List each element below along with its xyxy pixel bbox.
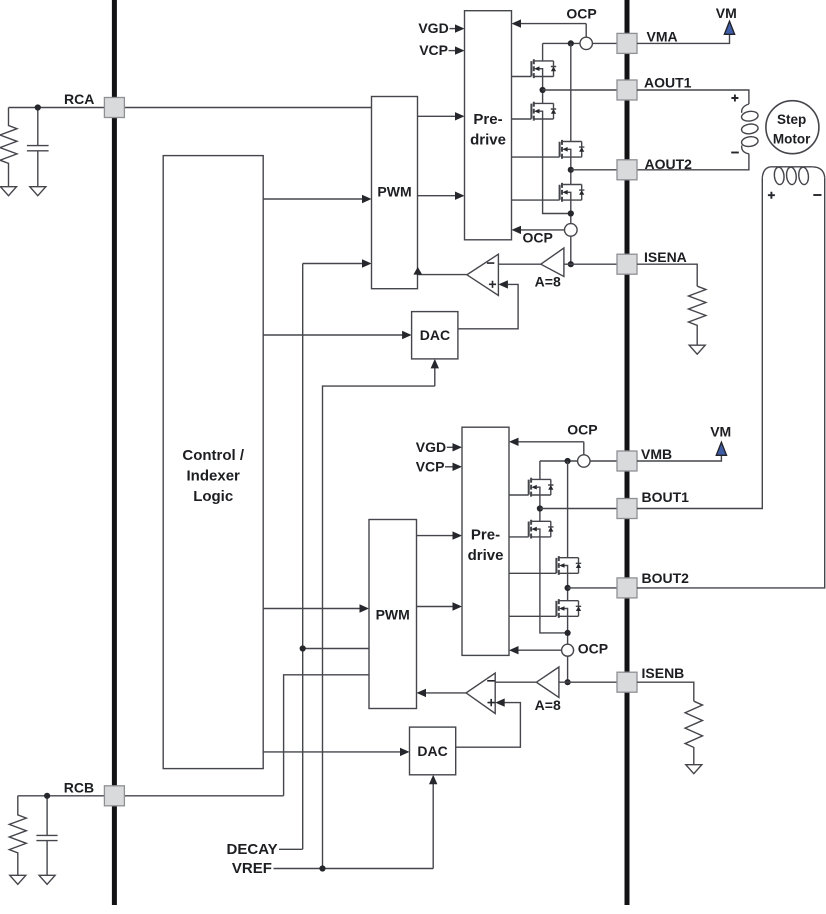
wire VMA to VM <box>637 34 730 43</box>
wire gate B HS right <box>509 572 556 574</box>
Control / Indexer Logic block U1 <box>163 156 263 769</box>
node VMB bridge junction <box>565 458 571 464</box>
ground <box>686 765 702 774</box>
bridge B right leg drain wire <box>567 461 569 558</box>
wire B left leg bottom <box>540 537 568 633</box>
wire DECAY branch to PWM B <box>303 648 369 650</box>
svg-text:DECAY: DECAY <box>227 841 278 858</box>
wire gate B LS right <box>509 615 556 617</box>
wire gate B HS left <box>509 494 529 496</box>
wire OCP A bottom to Pre-drive <box>521 229 565 231</box>
wire VMA rail <box>543 42 617 44</box>
label + winding A <box>731 95 738 102</box>
svg-text:A=8: A=8 <box>535 273 561 289</box>
wire VMB to VM <box>637 455 721 461</box>
svg-text:AOUT2: AOUT2 <box>645 156 693 172</box>
wire AOUT2 <box>571 169 617 171</box>
wire RCA to PWM A <box>9 107 372 109</box>
PWM A block <box>372 97 418 289</box>
wire OCP sense B to Pre-drive <box>518 442 584 455</box>
node VREF junction <box>319 865 325 871</box>
chip right boundary <box>625 0 630 905</box>
pin pad RCB <box>104 786 124 806</box>
resistor ISENB sense <box>685 701 702 764</box>
inductor winding A <box>741 104 759 154</box>
pin pad VMB <box>617 451 637 471</box>
wire A right leg mid <box>570 157 572 184</box>
wire gate A LS left <box>512 118 532 120</box>
wire A right leg to OCP <box>570 200 572 264</box>
svg-text:VM: VM <box>716 5 737 21</box>
svg-text:DAC: DAC <box>420 327 450 343</box>
wire AOUT1 <box>543 89 617 91</box>
pin pad ISENA <box>617 254 637 274</box>
svg-text:VGD: VGD <box>416 439 446 455</box>
svg-text:OCP: OCP <box>567 421 597 437</box>
node VMA bridge junction <box>568 40 574 46</box>
wire PWM B to Pre-drive out1 <box>417 535 454 537</box>
svg-text:Step: Step <box>777 112 806 127</box>
pin pad BOUT2 <box>617 578 637 598</box>
svg-text:VMA: VMA <box>647 28 678 44</box>
node DECAY branch junction <box>300 645 306 651</box>
current sense circle B bottom <box>562 644 574 656</box>
svg-text:Indexer: Indexer <box>187 467 241 484</box>
wire ISENB <box>559 681 617 683</box>
svg-text:BOUT2: BOUT2 <box>642 570 690 586</box>
wire AOUT1 to motor <box>637 90 749 104</box>
wire VREF riser to DAC A <box>323 368 435 869</box>
ground <box>689 345 705 354</box>
svg-text:ISENA: ISENA <box>644 249 687 265</box>
node RCA junction <box>35 104 41 110</box>
svg-text:Motor: Motor <box>773 132 811 147</box>
ground <box>30 187 46 196</box>
svg-text:DAC: DAC <box>417 743 447 759</box>
amplifier A=8 channel A <box>541 248 564 277</box>
chip left boundary <box>112 0 117 905</box>
svg-text:OCP: OCP <box>566 6 596 22</box>
pin pad VMA <box>617 33 637 53</box>
svg-text:VM: VM <box>710 424 731 440</box>
svg-text:PWM: PWM <box>376 607 410 623</box>
Pre-drive B block <box>462 427 509 655</box>
wire VMB rail <box>540 460 617 462</box>
transistor B high-side right <box>556 556 581 575</box>
supply VM B <box>716 442 726 455</box>
pin pad RCA <box>104 98 124 118</box>
wire PWM A to Pre-drive out2 <box>418 195 457 197</box>
label + winding B <box>768 192 775 199</box>
node ISENA junction <box>568 261 574 267</box>
ground <box>39 875 55 884</box>
wire Control to PWM A <box>263 198 363 200</box>
inductor winding B <box>762 167 824 185</box>
svg-text:OCP: OCP <box>523 230 553 246</box>
bridge B left leg drain wire <box>539 461 541 479</box>
wire A=8 to comparator minus <box>498 263 540 265</box>
ground <box>1 187 17 196</box>
svg-text:RCA: RCA <box>64 91 94 107</box>
bridge A left leg drain wire <box>542 43 544 61</box>
node AOUT2 junction <box>568 167 574 173</box>
transistor A low-side right <box>560 183 585 202</box>
svg-text:A=8: A=8 <box>535 697 561 713</box>
PWM B block <box>369 520 417 709</box>
transistor B high-side left <box>529 478 554 497</box>
wire gate A HS right <box>512 156 560 158</box>
wire OCP B bottom to Pre-drive <box>518 649 562 651</box>
wire ISENB to sense resistor <box>637 682 694 701</box>
wire A left leg bottom <box>543 119 571 214</box>
label - winding A <box>731 152 739 154</box>
svg-text:drive: drive <box>470 131 506 148</box>
svg-text:VCP: VCP <box>419 42 448 58</box>
transistor A high-side left <box>531 59 556 78</box>
svg-text:VGD: VGD <box>418 20 448 36</box>
wire gate A LS right <box>512 199 560 201</box>
svg-text:PWM: PWM <box>377 183 411 199</box>
node ISENB junction <box>565 679 571 685</box>
wire ISENA to sense resistor <box>637 264 697 286</box>
transistor A high-side right <box>560 140 585 159</box>
wire gate A HS left <box>512 76 532 78</box>
svg-text:drive: drive <box>468 547 504 564</box>
ground <box>10 875 26 884</box>
node AOUT1 junction <box>540 87 546 93</box>
current sense circle B top <box>578 455 590 467</box>
wire Control to DAC A <box>263 334 403 336</box>
svg-text:OCP: OCP <box>578 640 608 656</box>
wire AOUT2 to motor <box>637 154 749 170</box>
wire DAC A to comparator plus <box>458 284 518 328</box>
wire B left leg mid <box>539 495 541 521</box>
wire comparator B output to PWM <box>426 692 467 694</box>
wire A=8 B to comparator minus <box>495 681 536 683</box>
svg-text:ISENB: ISENB <box>642 665 685 681</box>
node RCB junction <box>44 793 50 799</box>
resistor ISENA sense <box>689 286 706 345</box>
svg-text:Logic: Logic <box>193 488 233 505</box>
resistor (RCB external) <box>9 796 26 875</box>
DAC A block <box>412 312 458 359</box>
wire ISENA <box>564 263 617 265</box>
svg-text:VREF: VREF <box>232 860 272 877</box>
pin pad AOUT1 <box>617 80 637 100</box>
wire DECAY riser to PWM A <box>303 264 363 850</box>
current sense circle A bottom <box>565 224 578 237</box>
svg-text:BOUT1: BOUT1 <box>642 489 690 505</box>
current sense circle A top <box>580 37 592 49</box>
wire comparator A output to PWM <box>418 274 467 276</box>
pin pad ISENB <box>617 672 637 692</box>
wire RCB riser to PWM B <box>284 675 369 796</box>
node BOUT2 junction <box>565 585 571 591</box>
transistor B low-side right <box>556 599 581 618</box>
svg-text:RCB: RCB <box>64 779 94 795</box>
Step Motor circle <box>766 101 819 154</box>
wire BOUT2 to motor <box>637 177 825 588</box>
amplifier A=8 channel B <box>536 667 559 697</box>
DAC B block <box>410 727 456 775</box>
pin pad AOUT2 <box>617 160 637 180</box>
bridge A right leg drain wire <box>570 43 572 141</box>
wire PWM A to Pre-drive out1 <box>418 115 457 117</box>
Pre-drive A block <box>465 11 512 240</box>
node BOUT1 junction <box>537 505 543 511</box>
pin pad BOUT1 <box>617 499 637 519</box>
wire DAC B to comparator plus <box>456 703 521 748</box>
node B bridge bottom junction <box>565 630 571 636</box>
resistor (RCA external) <box>0 108 17 187</box>
wire BOUT1 <box>540 508 617 510</box>
transistor A low-side left <box>531 102 556 121</box>
wire VREF line <box>274 784 434 869</box>
wire BOUT1 to motor <box>637 177 762 508</box>
svg-text:VMB: VMB <box>641 446 672 462</box>
wire Control to DAC B <box>263 751 401 753</box>
capacitor (RCA external) <box>27 108 49 187</box>
supply VM A <box>724 21 734 34</box>
svg-text:VCP: VCP <box>416 459 445 475</box>
wire A left leg mid <box>542 77 544 104</box>
comparator channel A <box>467 254 499 295</box>
svg-text:Control /: Control / <box>182 447 244 464</box>
wire PWM B to Pre-drive out2 <box>417 606 454 608</box>
svg-text:Pre-: Pre- <box>473 111 502 128</box>
wire gate B LS left <box>509 536 529 538</box>
wire B right leg to OCP <box>567 616 569 682</box>
wire Control to PWM B <box>263 608 360 610</box>
wire BOUT2 <box>568 587 617 589</box>
wire B right leg mid <box>567 573 569 600</box>
label - winding B <box>813 194 821 196</box>
svg-text:Pre-: Pre- <box>471 526 500 543</box>
wire RCB to riser <box>18 795 284 797</box>
node A bridge bottom junction <box>568 210 574 216</box>
transistor B low-side left <box>529 520 554 539</box>
comparator channel B <box>466 673 495 713</box>
wire OCP sense A to Pre-drive <box>521 24 587 38</box>
capacitor (RCB external) <box>36 796 57 875</box>
svg-text:AOUT1: AOUT1 <box>644 75 692 91</box>
